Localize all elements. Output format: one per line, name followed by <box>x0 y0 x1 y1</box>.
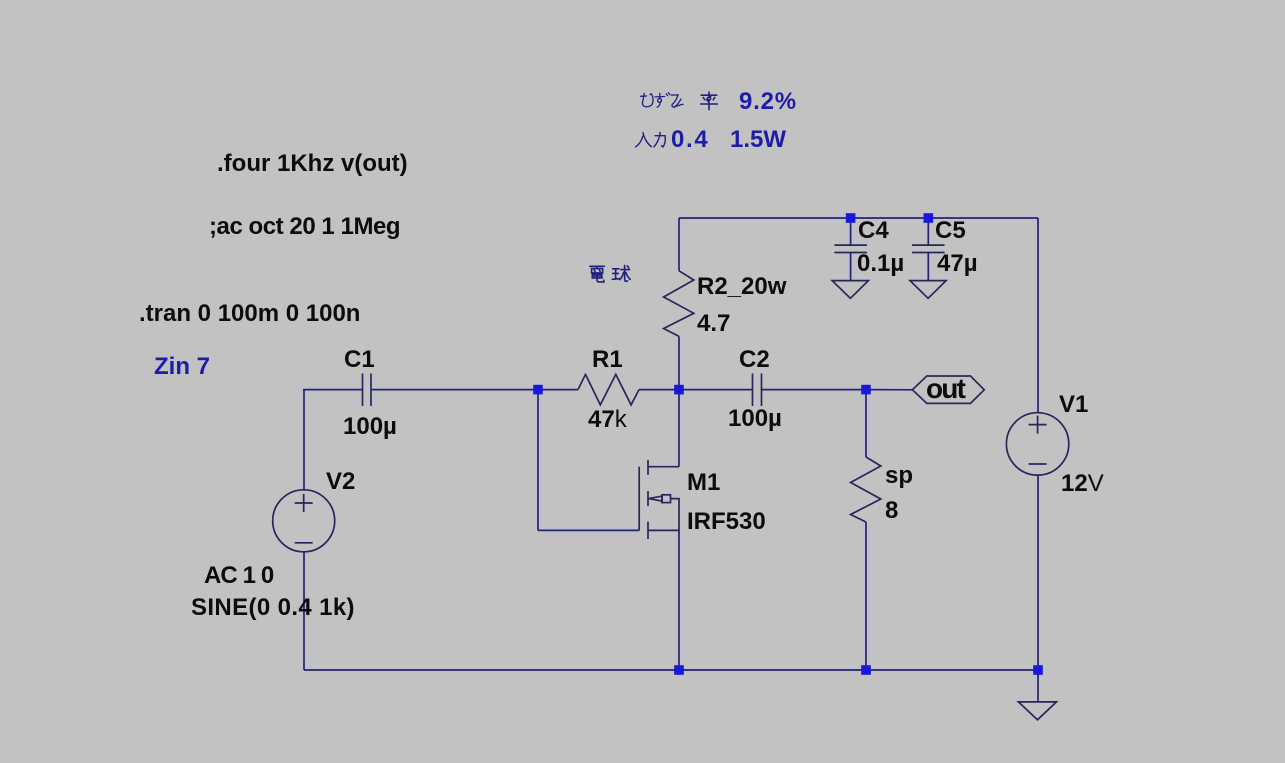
label C5 <box>935 219 966 243</box>
ground below C4 <box>832 281 868 299</box>
kanji nyu (input) <box>636 133 652 147</box>
label V1 <box>1059 393 1088 417</box>
voltage source V1 <box>1006 413 1068 475</box>
wire sp top lead <box>865 390 867 457</box>
ground bottom right <box>1018 702 1056 720</box>
junction node A <box>533 385 543 395</box>
resistor R1 <box>578 374 639 405</box>
value R1 47k <box>588 408 627 432</box>
junction node C <box>861 385 871 395</box>
kana zu of hizumi <box>655 93 670 108</box>
value M1 IRF530 <box>687 510 766 534</box>
transistor M1 NMOS <box>639 460 679 539</box>
note input power value <box>730 128 786 152</box>
value V2 AC 1 0 <box>204 564 273 588</box>
label out text <box>926 375 964 403</box>
wire top rail <box>679 217 1038 219</box>
value C5 47µ <box>937 252 978 276</box>
ground below C5 <box>910 281 946 299</box>
junction bottom rail sp <box>861 665 871 675</box>
junction bottom rail V1 <box>1033 665 1043 675</box>
voltage source V2 <box>273 490 335 552</box>
wire left vertical bottom V2 to bottom rail <box>303 552 305 670</box>
capacitor C1 <box>363 374 372 407</box>
kanji den (electric) <box>590 266 604 282</box>
wire V1 bottom to rail <box>1037 475 1039 670</box>
junction top rail C5 <box>924 213 934 223</box>
kana hi of hizumi <box>641 93 653 106</box>
kana-kanji annotations drawn as vector strokes <box>590 92 717 282</box>
directive ;ac <box>209 215 400 239</box>
label R2_20w <box>697 275 786 299</box>
note Zin 7 <box>154 355 210 379</box>
wire sp bottom lead <box>865 522 867 670</box>
wire ground stub bottom right <box>1037 670 1039 702</box>
note input level value <box>671 128 709 152</box>
wire R1 to node B and on to C2 <box>639 389 753 391</box>
label C1 <box>344 348 375 372</box>
wire left vertical top V2 to C1 row <box>303 390 305 490</box>
capacitor C4 <box>834 218 867 281</box>
capacitor C5 <box>912 218 945 281</box>
wire right vertical top rail to V1 <box>1037 218 1039 413</box>
wire gate feedback vertical from node A <box>537 390 539 531</box>
wire C2 to node C <box>762 389 867 391</box>
value V1 12V <box>1061 472 1104 496</box>
wire M1 source down to bottom rail <box>678 530 680 670</box>
label V2 <box>326 470 355 494</box>
wire node A to R1 <box>538 389 578 391</box>
label C2 <box>739 348 770 372</box>
value C2 100µ <box>728 407 782 431</box>
label C4 <box>858 219 889 243</box>
wire R2 top lead <box>678 218 680 271</box>
kanji ritsu (rate) <box>701 92 718 109</box>
junction node B <box>674 385 684 395</box>
kana mi of hizumi <box>671 95 683 108</box>
kanji kyu (ball) <box>612 265 630 281</box>
resistor sp <box>851 457 881 522</box>
note hizumi percent value <box>739 90 797 114</box>
directive .tran <box>139 302 360 326</box>
label M1 <box>687 471 720 495</box>
wire node C to out port <box>866 389 912 391</box>
junction top rail C4 <box>846 213 856 223</box>
value V2 SINE <box>191 596 355 620</box>
label R1 <box>592 348 623 372</box>
port out flag <box>912 376 984 403</box>
value C4 0.1µ <box>857 252 904 276</box>
value R2 4.7 <box>697 312 730 336</box>
wire main row left to C1 <box>303 389 363 391</box>
wire halo layer <box>303 218 1038 702</box>
kanji ryoku (power) <box>654 132 665 147</box>
wire gate feedback horizontal to gate <box>538 529 639 531</box>
capacitor C2 <box>753 374 762 407</box>
wire R2 bottom lead through node B to M1 drain <box>678 336 680 466</box>
wire C1 to node A <box>371 389 538 391</box>
wire bottom rail <box>304 669 1038 671</box>
directive .four <box>217 152 408 176</box>
value sp 8 <box>885 499 898 523</box>
label sp <box>885 464 913 488</box>
value C1 100µ <box>343 415 397 439</box>
resistor R2 <box>664 271 694 337</box>
junction bottom rail M1 <box>674 665 684 675</box>
